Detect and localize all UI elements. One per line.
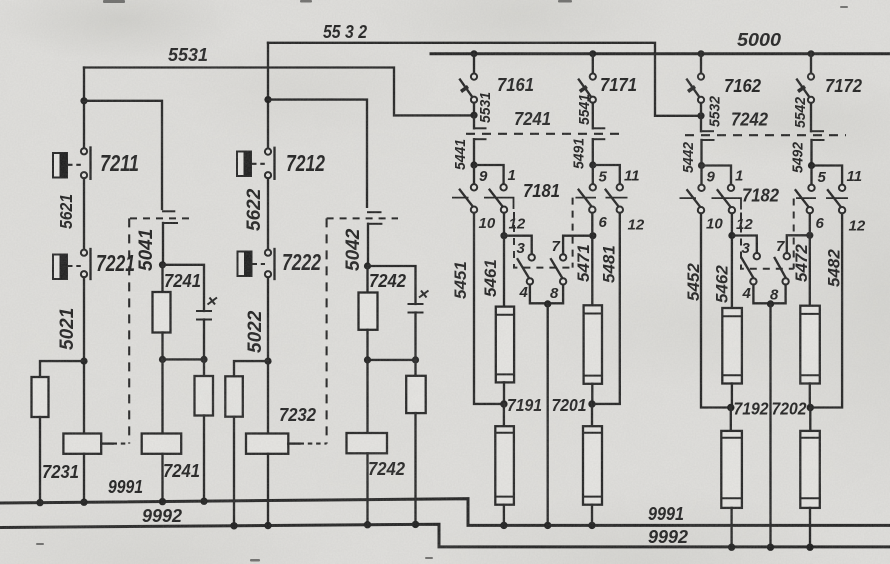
resistor 7242B	[359, 266, 378, 360]
wire 5531 (top-left bus)	[84, 68, 471, 116]
resistor 7241A	[153, 265, 171, 360]
node 7242-9992	[364, 521, 371, 528]
wire terminals 4r-8r to center column	[753, 285, 785, 304]
wire B3 bottom tie	[368, 359, 416, 361]
wire 5532 (top bus)	[268, 43, 698, 116]
fuse RF3 (lower left right-group)	[721, 408, 742, 548]
resistor RA2	[195, 359, 214, 501]
resistor RB1	[225, 376, 243, 416]
relay coil 7241	[142, 434, 182, 454]
wire to coil 7241	[161, 359, 163, 433]
contact 7162 (relay 5532 contact)	[687, 50, 705, 116]
node RA1-9991	[36, 499, 43, 506]
node B5	[412, 356, 419, 363]
resistor RB2	[406, 360, 426, 525]
contact 11r-12rr blade	[826, 190, 848, 207]
contact 5r-6r blade	[796, 190, 816, 207]
wire branch to terminal 3r	[732, 236, 757, 254]
node 7202	[807, 404, 814, 411]
resistor RA1	[32, 377, 49, 417]
contact 7171 (relay 5541 contact)	[579, 50, 597, 128]
wire channel-A main vertical (5531 to 7211)	[83, 68, 85, 149]
contact 9-10 blade	[452, 190, 473, 207]
wire to terminals 9 and 1	[474, 165, 504, 184]
fuse RF1 (5462 column)	[722, 308, 742, 408]
wire 5622	[267, 178, 269, 249]
dashed link contact block 7241	[466, 133, 620, 135]
capacitor CB	[408, 291, 429, 360]
wire coil 7242 to bus 9992	[366, 453, 368, 524]
node 6r-7r branch	[806, 232, 813, 239]
contact 7172 (relay 5542 contact)	[797, 50, 815, 131]
contact 1-12 blade	[484, 190, 514, 209]
node B1 junction	[264, 96, 271, 103]
terminal 12	[501, 207, 507, 213]
wire 7232 to bus 9992	[267, 454, 269, 526]
wire to coil 7242	[366, 360, 368, 433]
wire 5022	[267, 277, 269, 433]
node A1 junction	[80, 97, 87, 104]
dashed box around contacts 3-7	[514, 198, 573, 268]
relay coil 7231	[63, 434, 129, 454]
node 7231-9991	[80, 499, 87, 506]
node A5	[200, 356, 207, 363]
contact 5-6 blade	[576, 190, 597, 207]
node B2 junction	[264, 358, 271, 365]
fuse F2 (5471 column)	[584, 213, 602, 404]
node terminal 5 branch	[589, 161, 596, 168]
contact 9r-10r blade	[680, 190, 701, 207]
contact 5041 (plunger contact in inner column)	[130, 211, 189, 264]
node A2 junction	[80, 358, 87, 365]
terminal 4r	[750, 278, 756, 284]
contact 1r-12r blade	[712, 190, 742, 209]
wire terminals 4-8 to center column	[530, 285, 563, 304]
wire channel-B main vertical (5532 to 7212)	[267, 43, 269, 149]
terminal 11r	[839, 185, 845, 191]
node 7161-5531 junction	[470, 112, 477, 119]
pushbutton 7222	[238, 249, 275, 279]
node 7241-9991	[159, 498, 166, 505]
node center column	[544, 300, 551, 307]
terminal 5r	[808, 185, 814, 191]
dashed link 5622 button to coil 7232	[326, 218, 328, 443]
wire 5462 upper	[731, 213, 733, 308]
terminal 10	[471, 207, 477, 213]
terminal 10r	[698, 207, 704, 213]
terminal 3r	[754, 253, 760, 259]
wire A1 to inner column	[84, 101, 162, 209]
wire A3 to capacitor CA	[163, 265, 205, 311]
node RF4-9992	[806, 544, 813, 551]
wire 5532 corner junction at 7162	[697, 112, 704, 119]
node terminal 5r branch	[808, 162, 815, 169]
wire 5481	[595, 213, 620, 404]
node 7201	[588, 400, 595, 407]
contact block 7242 right bracket	[811, 131, 825, 165]
wire RA1 to bus 9991	[39, 417, 41, 503]
contact block 7241 right bracket	[593, 128, 606, 165]
wire 5482 lower	[814, 213, 842, 407]
fuse RF4 (lower right right-group)	[800, 408, 820, 548]
wire 5452	[701, 213, 727, 407]
terminal 8	[560, 278, 566, 284]
wire A2 to resistor RA1	[40, 361, 84, 377]
terminal 8r	[782, 278, 788, 284]
terminal 4	[527, 278, 533, 284]
wire 5000 (top-right bus)	[431, 52, 890, 55]
wire 5461 upper	[503, 213, 505, 307]
terminal 9r	[698, 185, 704, 191]
contact 11-12 blade	[606, 190, 628, 207]
terminal 9	[471, 184, 477, 190]
node A3 junction	[159, 261, 166, 268]
terminal 1	[500, 184, 506, 190]
relay coil 7232	[246, 434, 327, 454]
wire 5021 (7221 down to coil 7231)	[83, 277, 85, 433]
node terminal 9r branch	[698, 162, 705, 169]
pushbutton 7221	[53, 249, 91, 279]
wire branch to terminal 7	[563, 236, 593, 255]
node A4	[159, 356, 166, 363]
node RA2-9991	[200, 498, 207, 505]
fuse RF2 (5472 column)	[800, 213, 820, 407]
bus 9991	[0, 499, 890, 526]
node F3-9991	[500, 522, 507, 529]
node 12-3 branch	[500, 232, 507, 239]
node center column right	[767, 300, 774, 307]
contact 7-8 blade	[551, 259, 563, 278]
node B3 junction	[364, 262, 371, 269]
terminal 1r	[728, 185, 734, 191]
terminal 12b	[617, 207, 623, 213]
node centerR-9992	[767, 544, 774, 551]
wire to terminals 5 and 11	[593, 165, 620, 184]
bus 9992	[0, 524, 890, 547]
node F4-9991	[588, 522, 595, 529]
pushbutton 7211	[53, 148, 91, 179]
wire A3 bottom tie	[163, 358, 205, 360]
contact 3r-4r blade	[742, 258, 753, 277]
terminal 6	[589, 207, 595, 213]
wire to terminals 9r and 1r	[702, 166, 732, 185]
wire 7231 to bus 9991	[83, 454, 85, 502]
dashed box around contacts 3r-7r	[741, 199, 794, 269]
contact 5042 (plunger contact in inner column)	[327, 212, 398, 266]
fuse F4 (lower right)	[583, 404, 602, 525]
wire B3 to capacitor CB	[368, 266, 416, 304]
node RF3-9992	[728, 544, 735, 551]
dashed link contact block 7242	[685, 134, 846, 136]
node 7191	[500, 400, 507, 407]
terminal 3	[529, 254, 535, 260]
node center-9991	[544, 522, 551, 529]
node terminal 9 branch	[470, 161, 477, 168]
wire to terminals 5r and 11r	[812, 166, 843, 185]
wire B1 to inner column	[268, 100, 367, 207]
wire RB1 to bus 9992	[233, 417, 235, 526]
node 12r-3r branch	[728, 232, 735, 239]
capacitor CA	[196, 298, 217, 360]
contact 3-4 blade	[518, 259, 530, 278]
terminal 5	[590, 184, 596, 190]
terminal 12r1	[729, 207, 735, 213]
wire coil 7241 to bus 9991	[161, 454, 163, 502]
wire center column to bus 9991	[547, 304, 549, 526]
wire 5621 (between 7211 and 7221)	[83, 178, 85, 249]
wire branch to terminal 7r	[787, 235, 810, 253]
terminal 7	[560, 254, 566, 260]
node 7232-9992	[264, 522, 271, 529]
node B4	[364, 356, 371, 363]
fuse F1 (5461 column)	[496, 307, 514, 404]
terminal 11	[617, 184, 623, 190]
relay coil 7242	[347, 433, 388, 453]
wire branch to terminal 3	[504, 236, 532, 255]
dashed link 5621 button to coil 7231	[128, 218, 130, 443]
wire center column right to bus 9992	[769, 304, 771, 547]
terminal 12r2	[839, 207, 845, 213]
contact block 7241 left bracket	[474, 115, 487, 165]
fuse F3 (lower left)	[495, 404, 514, 525]
contact block 7242 left bracket	[701, 116, 715, 166]
node RB1-9992	[230, 522, 237, 529]
pushbutton 7212	[237, 148, 275, 179]
contact 7r-8r blade	[775, 258, 786, 277]
terminal 7r	[784, 253, 790, 259]
terminal 6r	[807, 207, 813, 213]
node 6-7 branch	[589, 232, 596, 239]
wire 5451	[474, 213, 500, 404]
node RB2-9992	[412, 521, 419, 528]
wire B2 to resistor RB1	[234, 361, 268, 376]
node 7192	[727, 404, 734, 411]
contact 7161 (relay 5531 contact)	[460, 50, 478, 115]
